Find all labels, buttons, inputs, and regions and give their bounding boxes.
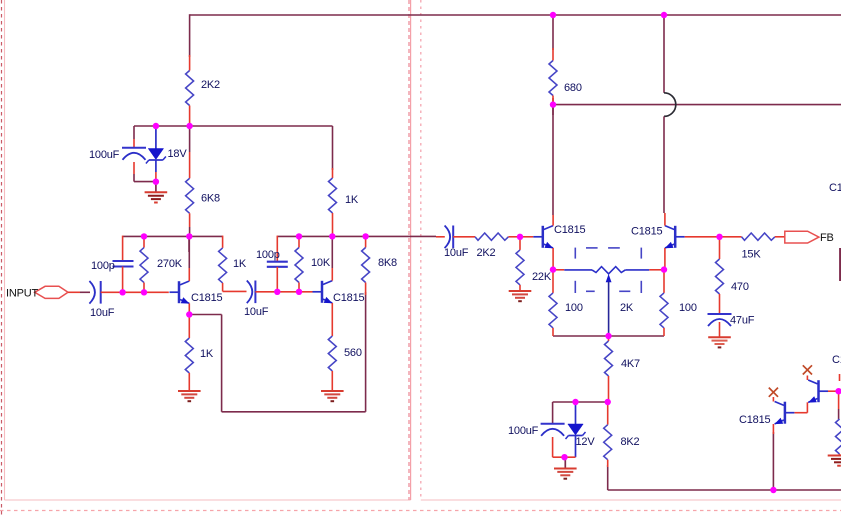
svg-text:8K8: 8K8 (378, 257, 397, 269)
svg-text:680: 680 (564, 82, 582, 94)
svg-text:22K: 22K (532, 271, 552, 283)
svg-text:2K2: 2K2 (201, 79, 220, 91)
svg-text:1K: 1K (200, 348, 214, 360)
svg-text:2K2: 2K2 (477, 247, 496, 259)
svg-text:100: 100 (565, 302, 583, 314)
svg-text:18V: 18V (168, 148, 188, 160)
svg-text:C1815: C1815 (191, 292, 222, 304)
svg-text:8K2: 8K2 (621, 436, 640, 448)
svg-text:C1815: C1815 (739, 414, 770, 426)
svg-text:270K: 270K (157, 258, 183, 270)
svg-text:2K: 2K (620, 302, 634, 314)
svg-text:100uF: 100uF (89, 149, 120, 161)
svg-text:INPUT: INPUT (6, 288, 38, 300)
svg-text:100: 100 (679, 302, 697, 314)
svg-text:4K7: 4K7 (621, 358, 640, 370)
svg-text:C1: C1 (832, 354, 841, 366)
svg-text:12V: 12V (576, 436, 596, 448)
svg-text:10K: 10K (311, 257, 331, 269)
svg-text:C1815: C1815 (333, 292, 364, 304)
svg-text:C1815: C1815 (554, 224, 585, 236)
svg-text:47uF: 47uF (730, 315, 755, 327)
svg-text:FB: FB (820, 232, 834, 244)
svg-text:C1: C1 (829, 182, 841, 194)
svg-text:10uF: 10uF (90, 307, 115, 319)
svg-text:10uF: 10uF (244, 306, 269, 318)
svg-text:100p: 100p (256, 249, 280, 261)
svg-text:6K8: 6K8 (201, 193, 220, 205)
svg-text:560: 560 (344, 347, 362, 359)
svg-text:15K: 15K (742, 249, 762, 261)
svg-text:1K: 1K (345, 194, 359, 206)
svg-text:1K: 1K (233, 258, 247, 270)
svg-text:100p: 100p (91, 260, 115, 272)
svg-text:10uF: 10uF (444, 247, 469, 259)
svg-text:470: 470 (731, 281, 749, 293)
svg-text:C1815: C1815 (631, 226, 662, 238)
svg-text:100uF: 100uF (508, 425, 539, 437)
